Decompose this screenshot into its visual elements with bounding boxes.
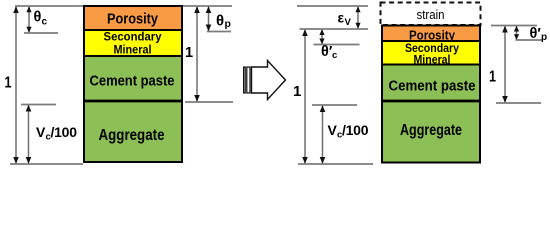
svg-text:Mineral: Mineral	[414, 53, 451, 67]
svg-text:/100: /100	[342, 122, 369, 138]
svg-text:V: V	[328, 122, 338, 138]
svg-text:θ: θ	[216, 12, 224, 29]
svg-text:V: V	[36, 124, 46, 140]
svg-text:θ′: θ′	[530, 26, 542, 42]
svg-text:θ: θ	[34, 10, 42, 26]
svg-text:1: 1	[5, 75, 12, 92]
svg-text:Secondary: Secondary	[104, 30, 162, 44]
svg-text:ε: ε	[338, 10, 345, 26]
svg-text:1: 1	[185, 45, 193, 61]
svg-text:Cement paste: Cement paste	[389, 79, 476, 95]
svg-text:Aggregate: Aggregate	[400, 122, 462, 139]
svg-text:1: 1	[489, 69, 496, 86]
svg-text:p: p	[541, 32, 547, 43]
svg-text:Cement paste: Cement paste	[90, 72, 175, 89]
svg-text:c: c	[332, 50, 337, 61]
svg-text:Mineral: Mineral	[114, 43, 152, 57]
svg-text:Aggregate: Aggregate	[99, 127, 165, 144]
svg-text:p: p	[225, 18, 231, 30]
svg-text:/100: /100	[51, 124, 78, 140]
svg-text:V: V	[345, 17, 352, 28]
svg-text:1: 1	[293, 83, 301, 100]
svg-text:c: c	[42, 17, 48, 28]
svg-text:strain: strain	[417, 7, 445, 22]
svg-text:Porosity: Porosity	[107, 12, 158, 28]
